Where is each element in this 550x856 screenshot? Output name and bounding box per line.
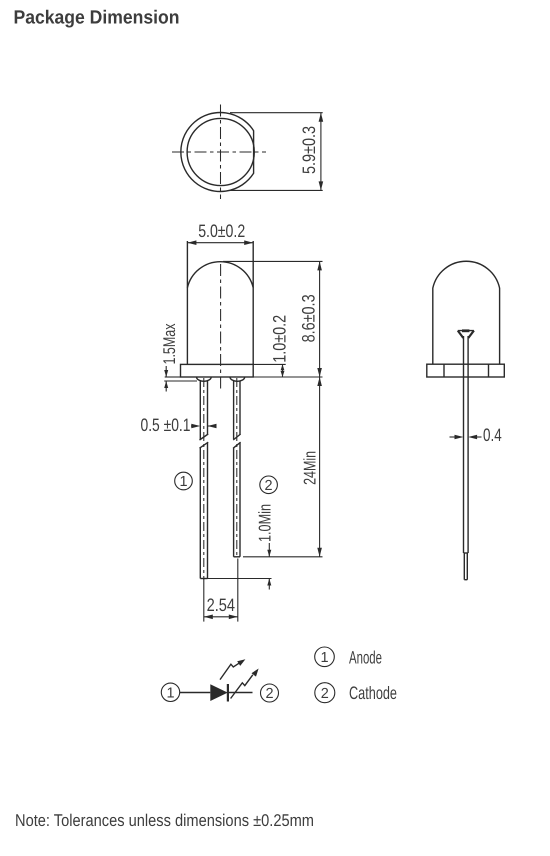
- svg-text:Anode: Anode: [349, 648, 382, 668]
- svg-text:2: 2: [265, 478, 273, 494]
- svg-text:8.6±0.3: 8.6±0.3: [299, 294, 319, 342]
- svg-text:2: 2: [265, 686, 273, 702]
- svg-text:5.9±0.3: 5.9±0.3: [299, 126, 319, 174]
- svg-text:1.5Max: 1.5Max: [160, 323, 179, 364]
- svg-text:2.54: 2.54: [207, 595, 235, 615]
- svg-text:0.4: 0.4: [483, 425, 502, 445]
- svg-text:1: 1: [179, 474, 187, 490]
- svg-text:2: 2: [321, 686, 329, 702]
- svg-text:0.5 ±0.1: 0.5 ±0.1: [141, 415, 191, 435]
- svg-text:1.0Min: 1.0Min: [256, 504, 275, 542]
- svg-text:Cathode: Cathode: [349, 683, 397, 703]
- svg-text:5.0±0.2: 5.0±0.2: [198, 221, 245, 241]
- svg-text:Note: Tolerances unless dimens: Note: Tolerances unless dimensions ±0.25…: [15, 811, 314, 830]
- svg-text:1.0±0.2: 1.0±0.2: [270, 315, 290, 363]
- svg-text:24Min: 24Min: [301, 451, 320, 485]
- svg-text:Package Dimension: Package Dimension: [14, 8, 180, 29]
- svg-text:1: 1: [320, 650, 328, 666]
- svg-text:1: 1: [166, 686, 174, 702]
